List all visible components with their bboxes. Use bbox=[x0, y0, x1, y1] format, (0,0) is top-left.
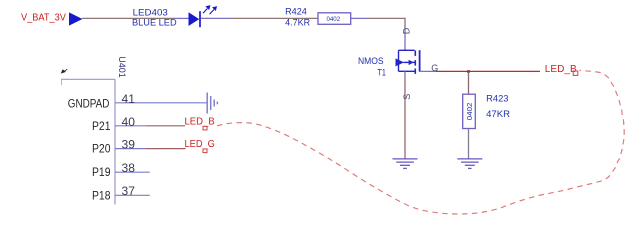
svg-text:P21: P21 bbox=[92, 121, 111, 133]
svg-text:P18: P18 bbox=[92, 190, 111, 202]
svg-text:38: 38 bbox=[122, 161, 136, 175]
svg-text:P20: P20 bbox=[92, 144, 111, 156]
svg-text:GNDPAD: GNDPAD bbox=[68, 98, 110, 110]
svg-text:40: 40 bbox=[122, 115, 136, 129]
svg-text:NMOS: NMOS bbox=[358, 56, 384, 67]
svg-text:D: D bbox=[402, 27, 412, 34]
svg-text:V_BAT_3V: V_BAT_3V bbox=[21, 11, 66, 23]
svg-text:T1: T1 bbox=[378, 68, 386, 79]
svg-text:U401: U401 bbox=[116, 56, 127, 78]
svg-text:37: 37 bbox=[122, 184, 136, 198]
svg-text:S: S bbox=[402, 94, 412, 100]
svg-text:LED_B: LED_B bbox=[545, 63, 577, 75]
svg-text:4.7KR: 4.7KR bbox=[285, 17, 310, 28]
svg-text:G: G bbox=[431, 63, 438, 73]
svg-text:39: 39 bbox=[122, 138, 136, 152]
svg-text:41: 41 bbox=[122, 92, 136, 106]
svg-text:47KR: 47KR bbox=[486, 109, 510, 120]
svg-text:P19: P19 bbox=[92, 167, 111, 179]
svg-text:R423: R423 bbox=[486, 93, 508, 104]
svg-text:R424: R424 bbox=[285, 6, 307, 17]
svg-text:LED_G: LED_G bbox=[185, 138, 215, 150]
svg-text:0402: 0402 bbox=[327, 16, 341, 23]
svg-text:BLUE LED: BLUE LED bbox=[132, 18, 177, 29]
svg-text:LED_B: LED_B bbox=[185, 115, 215, 127]
svg-text:0402: 0402 bbox=[467, 102, 474, 120]
